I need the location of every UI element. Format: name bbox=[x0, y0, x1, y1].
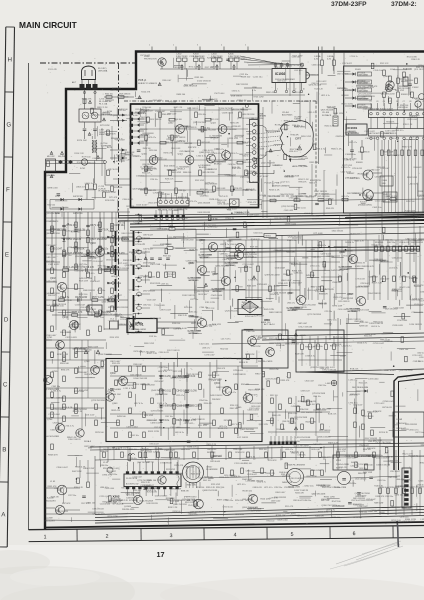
capacitors C705 C706 bbox=[83, 128, 87, 130]
svg-text:C659 0.047: C659 0.047 bbox=[277, 81, 286, 83]
bottom grid-reference ruler with numbers 1-6 bbox=[28, 526, 424, 542]
svg-text:R547 100: R547 100 bbox=[332, 501, 342, 503]
svg-text:Q538: Q538 bbox=[348, 294, 354, 296]
svg-text:R705 100: R705 100 bbox=[184, 307, 192, 309]
IC X202 jungle bbox=[124, 474, 181, 487]
svg-text:D-707: D-707 bbox=[55, 196, 60, 198]
svg-text:R615 100: R615 100 bbox=[198, 294, 208, 296]
svg-text:C243 0.047: C243 0.047 bbox=[144, 485, 154, 487]
svg-text:R253 100: R253 100 bbox=[191, 473, 199, 475]
svg-text:D367 1SS133: D367 1SS133 bbox=[314, 191, 327, 193]
svg-text:R211 1/2W: R211 1/2W bbox=[198, 425, 207, 427]
svg-text:C579 10u: C579 10u bbox=[282, 476, 291, 478]
svg-text:D631 1SS133: D631 1SS133 bbox=[51, 430, 64, 432]
svg-text:R178 1/2W: R178 1/2W bbox=[275, 125, 287, 127]
transistor Q511 bbox=[296, 295, 305, 304]
svg-text:R524 47K: R524 47K bbox=[149, 203, 159, 205]
svg-text:D536 1SS133: D536 1SS133 bbox=[251, 481, 264, 483]
svg-text:R426 47K: R426 47K bbox=[313, 444, 323, 446]
svg-text:C191 10u: C191 10u bbox=[189, 56, 199, 58]
svg-text:L863 4.7u: L863 4.7u bbox=[76, 187, 87, 189]
bottom bus line 2 bbox=[95, 510, 424, 518]
rla circled plus bbox=[331, 380, 337, 386]
svg-text:CLA-RGOS: CLA-RGOS bbox=[396, 422, 407, 425]
svg-text:R861 100: R861 100 bbox=[230, 408, 238, 410]
svg-text:C609 0.044: C609 0.044 bbox=[277, 519, 288, 521]
svg-text:IC1002: IC1002 bbox=[275, 72, 286, 76]
svg-text:R664 1.2K: R664 1.2K bbox=[367, 411, 378, 413]
svg-text:R923 100: R923 100 bbox=[163, 255, 171, 257]
svg-text:C357 10u: C357 10u bbox=[94, 317, 104, 319]
svg-text:L307 4.7u: L307 4.7u bbox=[294, 70, 302, 72]
svg-text:Q894 2SC2058: Q894 2SC2058 bbox=[52, 304, 67, 306]
degauss thermistor bbox=[81, 159, 87, 165]
vbox chain 1 bbox=[173, 362, 175, 436]
svg-text:R681 1/2W: R681 1/2W bbox=[61, 238, 71, 240]
long vertical x344 bbox=[343, 52, 345, 120]
svg-text:R907 10K: R907 10K bbox=[117, 156, 126, 158]
wire row under CRT bbox=[262, 199, 424, 201]
svg-text:L872 4.7u: L872 4.7u bbox=[219, 426, 227, 428]
svg-text:R368 2.2K: R368 2.2K bbox=[287, 240, 297, 242]
svg-text:C259 0.047: C259 0.047 bbox=[248, 215, 259, 217]
svg-text:R512 47K: R512 47K bbox=[389, 196, 398, 198]
svg-text:R882 100: R882 100 bbox=[198, 129, 206, 131]
svg-text:L640 4.7u: L640 4.7u bbox=[136, 238, 147, 240]
svg-text:R475 47K: R475 47K bbox=[325, 289, 335, 291]
vbox chain 0 bbox=[160, 362, 162, 436]
svg-text:Q241 2SC2058: Q241 2SC2058 bbox=[236, 359, 251, 361]
svg-text:C775 0.033: C775 0.033 bbox=[355, 279, 364, 281]
svg-text:Q649 2SC2058: Q649 2SC2058 bbox=[312, 494, 327, 496]
svg-text:Q751 2SC2058: Q751 2SC2058 bbox=[358, 94, 373, 96]
junction dots top rail bbox=[181, 68, 183, 70]
svg-text:R748 1/2W: R748 1/2W bbox=[74, 271, 83, 273]
bqp transistor QX01 bbox=[248, 337, 257, 346]
svg-text:D571 1SS133: D571 1SS133 bbox=[237, 437, 248, 439]
svg-text:C-DMI: C-DMI bbox=[396, 419, 402, 421]
left col wires D bbox=[45, 347, 104, 349]
svg-text:G6E04M6B: G6E04M6B bbox=[358, 91, 369, 93]
svg-text:Q664 2SC2058: Q664 2SC2058 bbox=[280, 194, 295, 196]
left col parts B bbox=[51, 226, 54, 232]
svg-text:Q441: Q441 bbox=[199, 152, 205, 154]
svg-text:C268 10u: C268 10u bbox=[274, 67, 282, 69]
rla long verticals bbox=[337, 318, 339, 470]
svg-text:GC23B-HD: GC23B-HD bbox=[225, 265, 236, 267]
IC1001 pin pulldown resistors bbox=[381, 140, 383, 213]
svg-text:Q304: Q304 bbox=[214, 383, 220, 385]
svg-text:C352 10u: C352 10u bbox=[274, 487, 282, 489]
svg-text:Q112 2SC2058: Q112 2SC2058 bbox=[302, 304, 317, 306]
svg-text:C418 10u: C418 10u bbox=[359, 468, 367, 470]
svg-text:D120 1SS133: D120 1SS133 bbox=[197, 80, 211, 82]
bqp parts bbox=[279, 334, 282, 340]
svg-text:C582 0.033: C582 0.033 bbox=[306, 401, 316, 403]
svg-text:Q126 2SC2058: Q126 2SC2058 bbox=[92, 513, 104, 515]
svg-text:L158 4.7u: L158 4.7u bbox=[106, 391, 115, 393]
texture wires round7 bbox=[199, 105, 201, 110]
svg-text:R717 1/2W: R717 1/2W bbox=[292, 56, 302, 58]
svg-text:R284 10K: R284 10K bbox=[75, 266, 84, 268]
transistor Q402 bbox=[176, 125, 185, 134]
svg-text:R938 1/2W: R938 1/2W bbox=[342, 90, 352, 92]
svg-text:L953 4.7u: L953 4.7u bbox=[285, 449, 293, 451]
svg-text:D557 1SS133: D557 1SS133 bbox=[167, 350, 180, 352]
svg-text:R288 10K: R288 10K bbox=[359, 326, 369, 328]
svg-text:B4 04: B4 04 bbox=[107, 147, 112, 149]
CRT gun / tube symbol bbox=[183, 462, 204, 483]
svg-text:L751 4.7u: L751 4.7u bbox=[310, 266, 321, 268]
svg-text:R571 47K: R571 47K bbox=[138, 113, 148, 115]
svg-text:B: B bbox=[2, 446, 6, 453]
svg-text:D733 1SS133: D733 1SS133 bbox=[358, 152, 369, 154]
svg-text:Q558: Q558 bbox=[288, 293, 294, 295]
svg-text:H-C102-02BM: H-C102-02BM bbox=[46, 436, 59, 438]
svg-text:R708 2.2K: R708 2.2K bbox=[193, 500, 203, 502]
svg-text:R653 1/2W: R653 1/2W bbox=[181, 449, 190, 451]
svg-text:L466 4.7u: L466 4.7u bbox=[249, 508, 257, 510]
svg-text:C104 0.044: C104 0.044 bbox=[290, 515, 299, 517]
svg-text:R330 1.2K: R330 1.2K bbox=[411, 59, 420, 61]
svg-text:D263 1SS133: D263 1SS133 bbox=[289, 478, 303, 480]
bridge rectifier I050 bbox=[238, 300, 262, 315]
svg-text:C128 0.011: C128 0.011 bbox=[284, 176, 294, 178]
svg-text:L402 4.7u: L402 4.7u bbox=[342, 346, 353, 348]
svg-text:Q793 2SC2058: Q793 2SC2058 bbox=[312, 393, 325, 395]
svg-text:2: 2 bbox=[173, 45, 174, 47]
svg-text:R208 2.2K: R208 2.2K bbox=[328, 413, 337, 415]
svg-text:R812 100: R812 100 bbox=[270, 395, 278, 397]
svg-text:C699 0.022: C699 0.022 bbox=[285, 224, 297, 226]
svg-text:D580 1SS133: D580 1SS133 bbox=[285, 344, 299, 346]
svg-text:R232 100: R232 100 bbox=[406, 201, 416, 203]
svg-text:C684 0.047: C684 0.047 bbox=[275, 492, 286, 494]
svg-text:R928 4.7K: R928 4.7K bbox=[209, 199, 219, 201]
svg-text:R675 4.7K: R675 4.7K bbox=[328, 442, 339, 444]
vertical chain L3 bbox=[87, 212, 89, 268]
svg-text:R500 47K: R500 47K bbox=[402, 480, 412, 482]
svg-text:C844 0.047: C844 0.047 bbox=[242, 479, 253, 481]
svg-text:C255 0.047: C255 0.047 bbox=[53, 409, 64, 411]
svg-text:C812 0.033: C812 0.033 bbox=[46, 269, 57, 271]
AC chain verticals bbox=[84, 90, 86, 110]
svg-text:R604 1/2W: R604 1/2W bbox=[83, 468, 95, 470]
svg-text:R812 2.2K: R812 2.2K bbox=[97, 107, 108, 109]
svg-text:C498 10u: C498 10u bbox=[400, 517, 409, 519]
svg-text:C1002: C1002 bbox=[412, 87, 419, 89]
svg-text:C339 10u: C339 10u bbox=[161, 284, 169, 286]
tube pins bbox=[185, 482, 187, 488]
svg-text:4: 4 bbox=[234, 532, 237, 538]
svg-text:Q756 2SC2058: Q756 2SC2058 bbox=[373, 261, 385, 263]
svg-text:C521 10u: C521 10u bbox=[67, 312, 75, 314]
svg-text:D630 1SS133: D630 1SS133 bbox=[343, 159, 357, 161]
connector strip to CRT bbox=[250, 120, 260, 183]
svg-text:R897 4.7K: R897 4.7K bbox=[258, 195, 267, 197]
svg-text:R463 1/2W: R463 1/2W bbox=[212, 324, 221, 326]
svg-text:L323 4.7u: L323 4.7u bbox=[349, 395, 358, 397]
svg-text:C437 0.047: C437 0.047 bbox=[143, 249, 153, 251]
svg-text:D360 1SS133: D360 1SS133 bbox=[103, 449, 114, 451]
svg-text:D240 1SS133: D240 1SS133 bbox=[312, 219, 325, 221]
svg-text:R199 1/2W: R199 1/2W bbox=[257, 338, 267, 340]
svg-text:R512 R513: R512 R513 bbox=[150, 283, 161, 285]
svg-text:C624 0.022: C624 0.022 bbox=[325, 367, 336, 369]
right resistor column row bbox=[375, 246, 378, 252]
svg-text:Q688 2SC2058: Q688 2SC2058 bbox=[252, 148, 264, 150]
lla transistor Q705 bbox=[76, 429, 84, 437]
svg-text:C488 0.044: C488 0.044 bbox=[185, 467, 194, 469]
svg-text:R553 47K: R553 47K bbox=[339, 467, 348, 469]
svg-text:R111 4.7K: R111 4.7K bbox=[285, 506, 294, 508]
svg-text:C951 0.047: C951 0.047 bbox=[407, 119, 418, 121]
svg-text:Q468 2SC2058: Q468 2SC2058 bbox=[147, 488, 160, 490]
svg-text:R446 47K: R446 47K bbox=[272, 165, 281, 167]
svg-text:R441 100: R441 100 bbox=[203, 480, 211, 482]
transistor Q206 bbox=[248, 494, 257, 503]
svg-text:10: 10 bbox=[303, 89, 305, 91]
svg-text:C925 0.047: C925 0.047 bbox=[363, 109, 374, 111]
svg-text:C531 0.044: C531 0.044 bbox=[198, 191, 210, 193]
svg-text:L536 4.7u: L536 4.7u bbox=[289, 151, 297, 153]
svg-text:C392 0.047: C392 0.047 bbox=[375, 176, 386, 178]
plug connector pins bbox=[80, 84, 85, 90]
svg-text:R917 100: R917 100 bbox=[255, 373, 265, 375]
svg-text:D588 1SS133: D588 1SS133 bbox=[83, 290, 95, 292]
svg-text:IC701: IC701 bbox=[135, 323, 144, 327]
left col extra parts C bbox=[51, 268, 54, 274]
svg-text:C588 10u: C588 10u bbox=[392, 507, 400, 509]
svg-text:C305 10u: C305 10u bbox=[138, 487, 146, 489]
vbox resistors bbox=[115, 366, 118, 372]
svg-text:C784 10u: C784 10u bbox=[150, 179, 158, 181]
svg-text:C358 0.044: C358 0.044 bbox=[126, 426, 138, 428]
svg-text:R924 100: R924 100 bbox=[398, 107, 408, 109]
svg-text:D343 1SS133: D343 1SS133 bbox=[208, 375, 219, 377]
svg-text:R766 4.7K: R766 4.7K bbox=[322, 457, 331, 459]
svg-text:C680 0.047: C680 0.047 bbox=[369, 277, 378, 279]
svg-text:R944 10K: R944 10K bbox=[111, 394, 121, 396]
svg-text:R808 10K: R808 10K bbox=[319, 304, 328, 306]
svg-text:C465 0.022: C465 0.022 bbox=[392, 258, 403, 260]
svg-text:L703 4.7u: L703 4.7u bbox=[228, 392, 236, 394]
svg-text:R691 47K: R691 47K bbox=[309, 182, 318, 184]
svg-text:R470 1/2W: R470 1/2W bbox=[172, 172, 181, 174]
svg-text:R226 2.2K: R226 2.2K bbox=[269, 189, 280, 191]
svg-text:D842 1SS133: D842 1SS133 bbox=[332, 230, 343, 232]
svg-text:R266 47K: R266 47K bbox=[409, 116, 418, 118]
svg-text:D473 1SS133: D473 1SS133 bbox=[122, 385, 133, 387]
svg-text:L408 4.7u: L408 4.7u bbox=[326, 383, 337, 385]
svg-text:R357 1.2K: R357 1.2K bbox=[142, 173, 151, 175]
svg-text:C906 0.047: C906 0.047 bbox=[56, 467, 68, 469]
main schematic border (thick stepped frame) bbox=[45, 52, 424, 530]
svg-text:C588 0.047: C588 0.047 bbox=[133, 364, 142, 366]
strip right columns bbox=[379, 450, 381, 515]
svg-text:4: 4 bbox=[221, 45, 222, 47]
svg-text:IC1007: IC1007 bbox=[360, 202, 368, 204]
svg-text:D255 1SS133: D255 1SS133 bbox=[319, 430, 330, 432]
svg-text:C101 10u: C101 10u bbox=[211, 380, 221, 382]
svg-text:C515 0.047: C515 0.047 bbox=[136, 205, 148, 207]
vbox chain 2 bbox=[186, 362, 188, 436]
svg-text:R552 2.2K: R552 2.2K bbox=[103, 468, 113, 470]
svg-text:R629 47K: R629 47K bbox=[107, 133, 117, 135]
svg-text:D941 1SS133: D941 1SS133 bbox=[411, 242, 423, 244]
svg-text:R115 100: R115 100 bbox=[409, 456, 419, 458]
svg-text:C641 0.047: C641 0.047 bbox=[105, 192, 117, 194]
box left connector pins bbox=[130, 112, 133, 115]
svg-text:F: F bbox=[6, 186, 10, 193]
svg-text:D493 1SS133: D493 1SS133 bbox=[250, 403, 263, 405]
svg-text:R373 4.7K: R373 4.7K bbox=[164, 152, 173, 154]
svg-text:R407 1/2W: R407 1/2W bbox=[363, 472, 372, 474]
svg-text:C291 0.047: C291 0.047 bbox=[341, 255, 350, 257]
IC1001 block outline bbox=[344, 66, 424, 213]
svg-text:R158 100: R158 100 bbox=[196, 487, 204, 489]
svg-text:R358 1/2W: R358 1/2W bbox=[266, 473, 275, 475]
svg-text:R577 1/2W: R577 1/2W bbox=[234, 137, 243, 139]
svg-text:Q535 2SC2058: Q535 2SC2058 bbox=[173, 504, 188, 506]
svg-text:R542 1/2W: R542 1/2W bbox=[307, 476, 317, 478]
svg-text:C366 0.047: C366 0.047 bbox=[418, 480, 424, 482]
svg-text:Q847 2SC2058: Q847 2SC2058 bbox=[137, 462, 149, 464]
svg-text:R355 47K: R355 47K bbox=[280, 380, 290, 382]
svg-text:C550 10u: C550 10u bbox=[385, 239, 393, 241]
svg-text:R363 47K: R363 47K bbox=[367, 448, 376, 450]
wire IC1002 out right bbox=[306, 74, 319, 76]
svg-text:D512 1SS133: D512 1SS133 bbox=[299, 327, 313, 329]
svg-text:C375 0.011: C375 0.011 bbox=[240, 177, 251, 179]
svg-text:R708 47K: R708 47K bbox=[234, 188, 243, 190]
svg-text:C723 0.044: C723 0.044 bbox=[368, 379, 379, 381]
svg-text:4-7D: 4-7D bbox=[327, 58, 332, 60]
svg-text:2SC234+CMOS: 2SC234+CMOS bbox=[258, 361, 273, 363]
svg-text:C112 10u: C112 10u bbox=[240, 74, 249, 76]
mid band resistors bbox=[245, 266, 248, 272]
svg-text:C692 0.022: C692 0.022 bbox=[184, 423, 193, 425]
svg-text:R784 47K: R784 47K bbox=[291, 135, 300, 137]
svg-text:D315 1SS133: D315 1SS133 bbox=[338, 301, 349, 303]
svg-text:R174 47K: R174 47K bbox=[48, 69, 58, 71]
svg-text:C722 0.022: C722 0.022 bbox=[374, 403, 385, 405]
svg-text:L827 4.7u: L827 4.7u bbox=[220, 244, 229, 246]
svg-text:Q553: Q553 bbox=[227, 241, 233, 243]
rla resistors bbox=[354, 408, 357, 414]
lla transistor Q703 bbox=[91, 366, 100, 375]
svg-text:R849 100: R849 100 bbox=[241, 77, 251, 79]
transistor Q509 bbox=[348, 254, 357, 263]
svg-text:D431 1SS133: D431 1SS133 bbox=[130, 375, 141, 377]
svg-text:R873 47K: R873 47K bbox=[62, 503, 71, 505]
svg-text:R296 47K: R296 47K bbox=[233, 126, 242, 128]
long vertical x318 bbox=[318, 52, 320, 164]
svg-text:Q509 2SC2058: Q509 2SC2058 bbox=[132, 188, 148, 190]
svg-text:R249 100: R249 100 bbox=[207, 58, 217, 60]
svg-text:1: 1 bbox=[44, 534, 47, 540]
svg-text:C265 0.033: C265 0.033 bbox=[170, 427, 181, 429]
svg-text:R174 10K: R174 10K bbox=[77, 140, 87, 142]
svg-text:D800 1SS133: D800 1SS133 bbox=[122, 233, 133, 235]
bottom bus line 3 bbox=[95, 513, 424, 521]
svg-text:R923 47K: R923 47K bbox=[112, 363, 121, 365]
svg-text:R680 1.2K: R680 1.2K bbox=[63, 266, 75, 269]
svg-text:R301 1.2K: R301 1.2K bbox=[243, 303, 253, 305]
svg-text:R849 100: R849 100 bbox=[340, 216, 350, 218]
wire to main box bbox=[105, 176, 130, 185]
svg-text:D828 1SS133: D828 1SS133 bbox=[150, 513, 163, 515]
svg-text:R407 1/2W: R407 1/2W bbox=[122, 488, 131, 490]
vertical chain L5 bbox=[111, 212, 113, 268]
svg-text:R598 1/2W: R598 1/2W bbox=[390, 155, 400, 157]
svg-text:R464 100: R464 100 bbox=[261, 322, 271, 324]
svg-text:R970 100: R970 100 bbox=[147, 480, 157, 482]
X202 feed drops bbox=[129, 447, 131, 462]
svg-text:Q559 2SC2058: Q559 2SC2058 bbox=[224, 129, 236, 131]
svg-text:D187 1SS133: D187 1SS133 bbox=[294, 490, 308, 492]
svg-text:C496 10u: C496 10u bbox=[303, 500, 311, 502]
svg-text:R870 100: R870 100 bbox=[224, 420, 232, 422]
svg-text:R-702: R-702 bbox=[80, 168, 85, 170]
svg-text:C426 0.022: C426 0.022 bbox=[364, 131, 375, 133]
svg-text:C259 0.033: C259 0.033 bbox=[352, 168, 362, 170]
thick bus right side bbox=[345, 216, 424, 218]
connector PG01 RGB bbox=[158, 198, 190, 206]
svg-text:56/5A-F: 56/5A-F bbox=[84, 440, 92, 443]
svg-text:C209 0.047: C209 0.047 bbox=[143, 110, 152, 112]
svg-text:C898 0.033: C898 0.033 bbox=[47, 187, 58, 189]
svg-text:C519 0.033: C519 0.033 bbox=[392, 325, 403, 327]
svg-text:D396 1SS133: D396 1SS133 bbox=[68, 439, 81, 441]
svg-text:C393 0.047: C393 0.047 bbox=[106, 471, 116, 473]
long mesh wires bbox=[262, 333, 424, 336]
svg-text:R193 2.2K: R193 2.2K bbox=[311, 74, 320, 76]
svg-text:Q520: Q520 bbox=[189, 263, 195, 265]
svg-text:Q903: Q903 bbox=[90, 243, 96, 245]
svg-text:R273 2.2K: R273 2.2K bbox=[206, 308, 215, 310]
svg-text:C997 0.047: C997 0.047 bbox=[390, 471, 400, 473]
svg-text:R986 2.2K: R986 2.2K bbox=[284, 121, 294, 123]
svg-text:R132 1/2W: R132 1/2W bbox=[383, 151, 393, 153]
svg-text:R344 100: R344 100 bbox=[105, 94, 113, 96]
svg-text:R537 4.7K: R537 4.7K bbox=[380, 63, 389, 65]
svg-text:R462 1/2W: R462 1/2W bbox=[87, 258, 96, 260]
svg-text:C528 0.044: C528 0.044 bbox=[150, 318, 162, 320]
midband second bus darker bbox=[200, 247, 420, 250]
svg-text:C577 0.022: C577 0.022 bbox=[321, 254, 332, 256]
svg-text:C882 0.033: C882 0.033 bbox=[216, 188, 225, 190]
IC701 wires bbox=[157, 321, 196, 323]
svg-text:GC23B-HD: GC23B-HD bbox=[199, 257, 210, 259]
svg-text:FIL 3.15A: FIL 3.15A bbox=[99, 102, 108, 105]
svg-text:Q522 2SC2058: Q522 2SC2058 bbox=[126, 493, 141, 495]
svg-text:R890 4.7K: R890 4.7K bbox=[61, 369, 70, 371]
IC1001 label box bbox=[346, 124, 367, 135]
svg-text:R191 47K: R191 47K bbox=[409, 278, 419, 280]
svg-text:Q487 2SC2058: Q487 2SC2058 bbox=[231, 109, 244, 111]
svg-text:R579 1.2K: R579 1.2K bbox=[373, 440, 383, 442]
svg-text:C227 10u: C227 10u bbox=[68, 495, 76, 497]
left col wires B bbox=[45, 217, 128, 219]
svg-text:R550 4.7K: R550 4.7K bbox=[205, 169, 214, 171]
svg-text:R473 4.7K: R473 4.7K bbox=[134, 351, 143, 353]
svg-text:D594 1SS133: D594 1SS133 bbox=[368, 293, 381, 295]
row under rail bbox=[244, 87, 262, 89]
svg-text:PROTECTOR: PROTECTOR bbox=[144, 59, 157, 61]
svg-text:C877 0.047: C877 0.047 bbox=[167, 114, 176, 116]
bottom bus line 1 bbox=[95, 507, 424, 515]
